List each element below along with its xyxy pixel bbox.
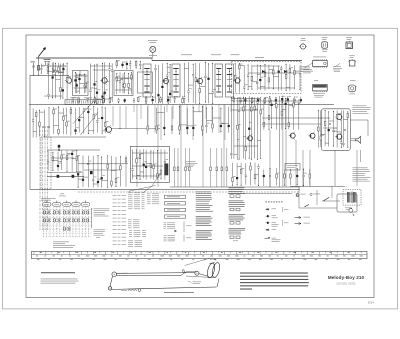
switch linkage dash-dot [40,126,48,230]
FM dipole input [31,59,51,65]
output parts [318,110,349,148]
transistor T4 [196,77,203,85]
remark paragraph [240,273,309,290]
switch table caption [41,194,66,201]
FM tuning coils [76,71,84,76]
cord note [188,281,201,284]
wires above T6 [111,106,160,129]
AM mixer parts [78,106,108,134]
legend box 1 [165,195,186,198]
loudspeaker [351,136,361,143]
parts list C [128,220,140,229]
note upper right [353,106,371,114]
bandswitch module [65,98,103,105]
pinout TO top [348,80,357,94]
bottom caps row [263,168,311,187]
mains transformer [343,190,361,206]
switch legend note [94,230,106,238]
dash boundary [78,191,300,193]
switch side note [94,209,110,217]
long verticals [270,96,310,187]
am module innards [132,149,169,180]
transistor T9 [335,113,342,121]
thermistor box [285,164,300,171]
parts list E [128,241,142,247]
front filter parts [48,63,71,100]
osc coil parts [47,150,80,172]
output stage box [321,109,350,151]
note paragraph 3 [196,216,213,226]
tuning gang dashed box [41,137,51,189]
IC1 leader note [301,63,313,72]
input filter L1 C1 [32,61,39,76]
legend arrow b [295,222,311,224]
pinout AF114 [299,38,307,49]
parts list D [129,230,146,237]
legend box 3 [165,208,186,211]
lamp 2 [310,193,320,195]
switch S2 [305,205,310,208]
switch contact matrix [43,210,89,231]
note paragraph 2 [196,204,214,212]
wire [44,136,106,138]
IF transformer Fi2 [172,64,180,97]
label 2.ZF [181,54,264,57]
trap circuit [40,62,66,75]
dial lamp [148,40,158,58]
wire ground bottom [30,189,300,191]
switch dotted rows [43,210,92,237]
transistor T7 [246,134,252,142]
elco C35 [90,171,93,174]
switch guide lines [44,208,89,238]
legend box 2 [165,202,186,205]
transistor T6 [104,125,111,134]
IC1 DIP [313,57,328,68]
interstage parts [89,62,113,104]
FM compartment 1 innards [74,72,89,94]
pinout AD161 [346,37,352,48]
model number [337,281,356,285]
pilot lamp [296,194,305,197]
wire bottom rail [29,104,334,106]
FM compartment 1 links [74,76,88,88]
AM rf parts [48,107,79,136]
text cluster kl [186,161,198,167]
IF coupling parts [155,63,174,104]
ratio det links [248,66,299,88]
legend brackets [283,207,289,226]
svg-text:(29 5201 0105): (29 5201 0105) [337,281,356,285]
switch footer [53,242,75,248]
hatched bar [165,164,168,175]
note paragraph 6 [229,201,246,211]
af row under ratio [236,96,302,104]
symbol legend lower [164,235,192,242]
mains plug [349,208,354,216]
af input parts [263,98,300,130]
detector diode D1 [262,70,265,73]
power wires [290,186,345,208]
legend pin digits [266,201,283,204]
FM compartment 2 [114,71,133,96]
switch bank buttons [43,201,90,207]
IF transformer Fi4 [226,64,234,97]
AM converter parts [234,63,247,93]
wire bus [78,164,128,170]
ratio detector innards [247,64,303,91]
transformer windings [348,192,356,204]
switch note column [113,195,127,245]
note paragraph 8 [229,228,246,241]
wire af bus [262,118,330,124]
wire vertical drops [134,105,231,188]
transistor T2 AF107 [100,76,107,84]
note paragraph 7 [229,214,246,224]
svg-text:Melody-Boy 210: Melody-Boy 210 [328,275,365,280]
ratio det note [303,69,313,73]
mid vertical wires [174,148,228,187]
symbol legend upper [164,222,192,233]
wire [47,172,82,174]
legend box 4 [165,215,186,218]
cord pointer line [129,186,210,266]
elco C30 [58,145,60,148]
note paragraph 5 [229,188,246,198]
wire main supply bus [36,58,302,61]
module pointer [143,173,161,193]
FM compartment 1 [73,71,89,96]
wire am bus 2 [47,175,84,178]
front filter links [44,66,66,96]
wire antenna rail [30,75,69,189]
left AM parts [32,108,45,137]
pinout T small [348,55,356,66]
FM compartment 2 links [115,78,132,90]
cord caption [164,291,194,294]
coupling row2 [205,107,229,133]
note paragraph 4 [196,230,213,240]
wire power link [228,193,292,195]
pinout AC151 [322,37,328,51]
cord length note [41,272,79,283]
transistor T1 AF106 [65,76,72,84]
IF transformer Fi1 shield [138,72,153,93]
compartment bottom parts [72,97,135,104]
note paragraph 1 [196,192,212,202]
antenna [39,48,46,62]
lf cluster left [77,155,127,188]
dial cord diagram [108,259,221,292]
wire am bus [47,146,100,151]
IF transformer Fi1 [143,64,151,97]
IF stage parts 2 [183,62,216,104]
tuning dial scale [32,251,368,260]
svg-text:E/24: E/24 [368,301,374,305]
legend arrow a [295,216,311,218]
transistor T8 driver [289,132,296,140]
parts list A [128,193,145,210]
am module box [131,146,170,182]
rectifier block [337,194,357,212]
agc column2 [232,163,260,187]
note lower right [353,168,371,182]
model name [328,275,365,280]
IF transformer Fi3 [215,64,223,97]
component symbol legend [265,208,281,242]
battery note [345,208,351,210]
agc column [230,96,264,160]
transistor T11 [335,133,342,141]
interstage links [90,66,112,99]
pinout T note [333,64,342,73]
switch S1 [324,197,330,201]
page number [368,301,374,305]
coupling row [147,106,203,136]
ratio detector box [232,62,302,94]
wire [170,186,300,188]
wire right edge [335,120,368,186]
transistor T10 [309,132,316,140]
if bottom parts [137,96,183,104]
FM compartment 2 innards [116,72,132,94]
detector diode D2 [284,70,287,73]
parts list B [147,194,159,205]
transistor T3 [162,77,169,85]
wire diagonal link [73,100,98,135]
transistor T5 [233,76,240,84]
IC2 DIP hatched [313,80,328,97]
switch bracket [91,209,92,229]
osc parts [116,60,141,70]
